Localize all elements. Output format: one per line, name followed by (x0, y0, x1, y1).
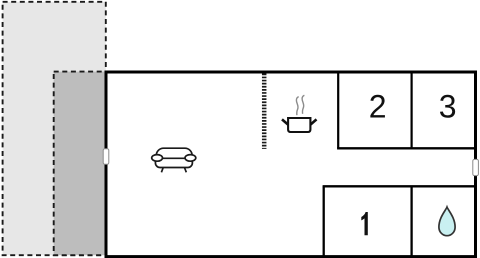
sofa seat (155, 158, 192, 167)
water drop (bathroom) (439, 207, 455, 236)
sofa leg right (184, 166, 186, 172)
sofa armrest left (152, 155, 163, 162)
svg-text:3: 3 (439, 88, 457, 124)
room label 1 (361, 212, 368, 235)
sofa leg left (161, 166, 163, 172)
wall between room1 and bathroom (410, 186, 412, 256)
kitchen pot body (288, 118, 310, 132)
kitchen pot steam right (302, 95, 304, 114)
wall between room2 and room3 (411, 72, 413, 148)
wall room1 left (323, 186, 325, 256)
kitchen pot steam left (296, 97, 298, 116)
terrace area (light gray dashed) (3, 2, 106, 255)
svg-text:2: 2 (369, 88, 387, 124)
building outer wall (106, 72, 476, 257)
dotted partition (kitchen divider) (262, 74, 267, 149)
sofa backrest (156, 148, 192, 164)
kitchen pot handle right (310, 119, 317, 125)
sofa (152, 148, 196, 172)
wall room2 left (337, 72, 339, 148)
patio area (dark gray dashed) (54, 72, 106, 256)
sofa armrest right (185, 155, 196, 162)
wall bottom of rooms 2/3 (337, 147, 475, 149)
door right wall (473, 159, 479, 175)
wall top of room1/bath (323, 185, 476, 187)
door left wall (103, 149, 109, 164)
kitchen pot handle left (282, 119, 289, 125)
